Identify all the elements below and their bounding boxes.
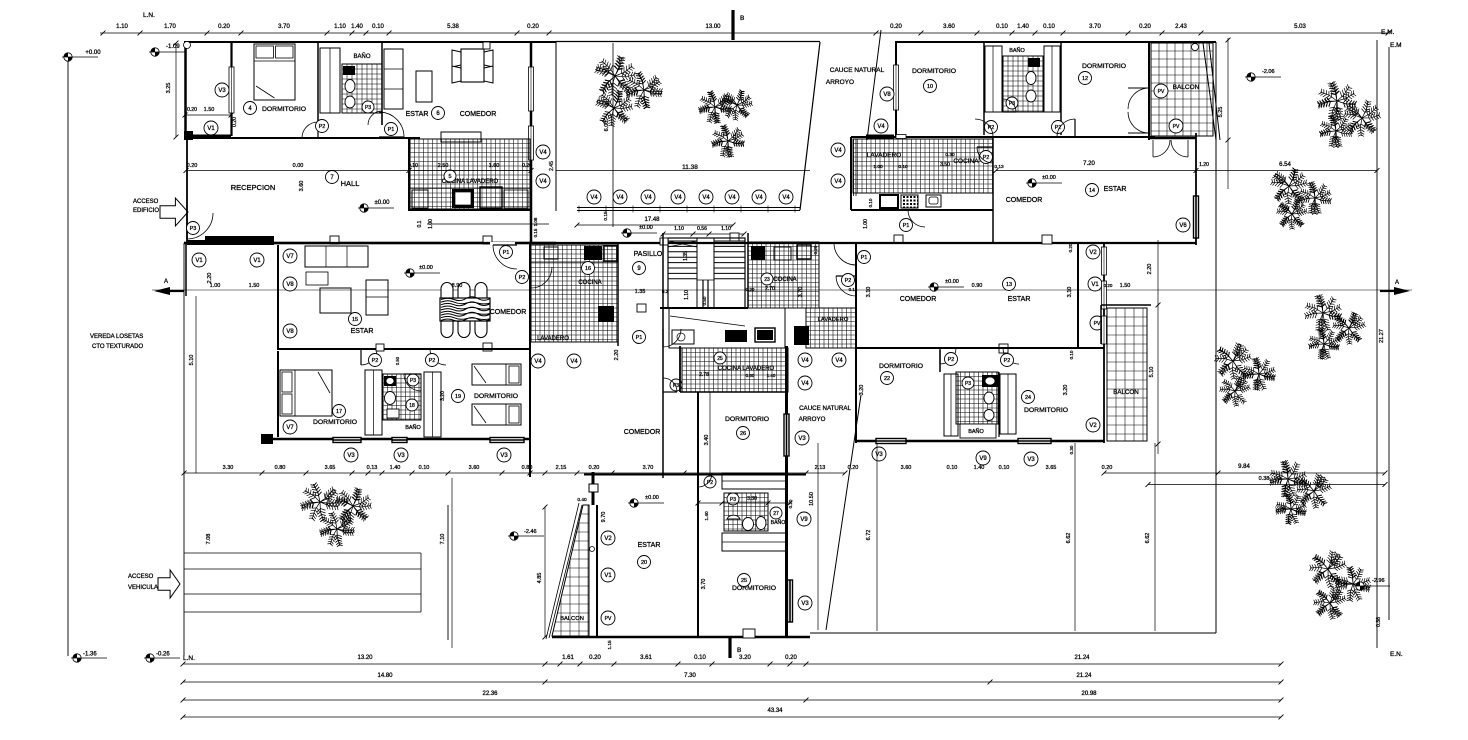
svg-text:0.10: 0.10 (408, 163, 418, 169)
svg-text:2.20: 2.20 (207, 273, 213, 284)
svg-text:0.20: 0.20 (187, 107, 197, 113)
svg-text:1.35: 1.35 (635, 289, 646, 295)
svg-text:P2: P2 (519, 275, 526, 281)
svg-text:CAUCE NATURAL: CAUCE NATURAL (799, 405, 851, 412)
svg-text:0.20: 0.20 (813, 245, 818, 254)
svg-text:0.80: 0.80 (746, 373, 755, 378)
svg-text:1.70: 1.70 (164, 24, 176, 30)
svg-text:0.10: 0.10 (694, 655, 706, 661)
svg-text:0.20: 0.20 (746, 287, 755, 292)
svg-text:3.70: 3.70 (278, 24, 290, 30)
svg-text:3.10: 3.10 (866, 287, 872, 298)
svg-text:±0.00: ±0.00 (639, 225, 653, 231)
svg-text:19: 19 (455, 394, 461, 400)
svg-text:13.20: 13.20 (357, 655, 373, 661)
svg-text:P3: P3 (965, 381, 971, 387)
svg-text:LAVADERO: LAVADERO (818, 317, 849, 323)
svg-text:V7: V7 (286, 425, 294, 431)
svg-text:1.40: 1.40 (390, 465, 401, 471)
svg-text:0.20: 0.20 (527, 24, 539, 30)
svg-text:3.60: 3.60 (469, 465, 480, 471)
svg-text:V1: V1 (1091, 282, 1099, 288)
svg-text:2.43: 2.43 (1175, 24, 1187, 30)
svg-text:3.61: 3.61 (640, 655, 652, 661)
svg-text:10.50: 10.50 (809, 492, 815, 506)
svg-text:V4: V4 (590, 195, 598, 201)
svg-text:V8: V8 (286, 282, 294, 288)
svg-text:EDIFICIO: EDIFICIO (133, 208, 159, 214)
svg-text:A: A (164, 279, 168, 285)
svg-text:DORMITORIO: DORMITORIO (879, 363, 923, 370)
svg-text:V3: V3 (875, 452, 883, 458)
svg-text:1.50: 1.50 (204, 107, 215, 113)
svg-text:1.10: 1.10 (674, 226, 684, 232)
svg-text:3.20: 3.20 (1063, 385, 1069, 396)
svg-text:BAÑO: BAÑO (353, 53, 370, 60)
svg-text:3.65: 3.65 (325, 465, 336, 471)
svg-text:E.M: E.M (1390, 42, 1402, 49)
svg-text:COMEDOR: COMEDOR (460, 111, 497, 118)
svg-text:PV: PV (605, 616, 612, 622)
svg-text:6.62: 6.62 (1145, 533, 1151, 544)
svg-text:ACCESO: ACCESO (128, 574, 154, 580)
svg-text:20.98: 20.98 (1081, 691, 1097, 697)
svg-text:9.70: 9.70 (601, 512, 607, 523)
svg-text:BAÑO: BAÑO (968, 428, 984, 435)
svg-text:V4: V4 (834, 148, 842, 154)
svg-text:2.13: 2.13 (815, 465, 826, 471)
svg-text:26: 26 (740, 431, 746, 437)
svg-text:3.40: 3.40 (704, 435, 710, 446)
svg-text:P2: P2 (845, 278, 852, 284)
svg-text:1.08: 1.08 (533, 217, 538, 226)
svg-text:V4: V4 (539, 179, 547, 185)
svg-text:25: 25 (741, 578, 747, 584)
svg-text:V4: V4 (728, 195, 736, 201)
svg-text:V4: V4 (834, 179, 842, 185)
svg-text:L.N.: L.N. (143, 12, 155, 19)
svg-text:1.10: 1.10 (116, 24, 128, 30)
svg-text:PV: PV (1173, 124, 1180, 130)
svg-text:V4: V4 (539, 150, 547, 156)
svg-text:1.40: 1.40 (974, 465, 985, 471)
svg-text:1.35: 1.35 (683, 251, 689, 261)
svg-text:0.10: 0.10 (1069, 350, 1074, 359)
svg-text:1.15: 1.15 (607, 640, 613, 650)
svg-text:3.25: 3.25 (166, 83, 172, 94)
svg-text:DORMITORIO: DORMITORIO (1024, 407, 1068, 414)
svg-text:2.20: 2.20 (614, 350, 620, 361)
svg-text:±0.00: ±0.00 (945, 279, 959, 285)
svg-text:0.15: 0.15 (603, 211, 609, 221)
svg-text:0.20: 0.20 (1139, 24, 1151, 30)
svg-text:22: 22 (884, 376, 890, 382)
svg-text:1.40: 1.40 (1017, 24, 1029, 30)
svg-text:1.00: 1.00 (863, 219, 869, 229)
svg-text:V4: V4 (674, 195, 682, 201)
svg-text:0.10: 0.10 (1043, 24, 1055, 30)
svg-text:V2: V2 (604, 536, 612, 542)
svg-text:9.84: 9.84 (1238, 464, 1250, 470)
svg-text:±0.00: ±0.00 (375, 200, 391, 206)
svg-text:6.62: 6.62 (1066, 533, 1072, 544)
svg-text:0.20: 0.20 (1068, 243, 1073, 252)
svg-text:3.50: 3.50 (940, 162, 950, 168)
svg-text:V2: V2 (1089, 423, 1097, 429)
svg-text:E.N.: E.N. (1390, 651, 1403, 658)
svg-text:COMEDOR: COMEDOR (490, 309, 527, 316)
svg-text:14: 14 (1089, 188, 1095, 194)
svg-text:0.10: 0.10 (996, 24, 1008, 30)
svg-text:22.36: 22.36 (482, 691, 498, 697)
svg-text:1.00: 1.00 (210, 283, 221, 289)
svg-text:COCINA: COCINA (953, 158, 979, 165)
svg-text:3.60: 3.60 (943, 24, 955, 30)
svg-text:BAÑO: BAÑO (1009, 47, 1025, 54)
svg-text:COMEDOR: COMEDOR (624, 429, 661, 436)
svg-text:5.03: 5.03 (1294, 24, 1306, 30)
svg-text:P1: P1 (503, 250, 510, 256)
svg-text:COMEDOR: COMEDOR (900, 296, 937, 303)
svg-text:V1: V1 (207, 126, 215, 132)
svg-text:ARROYO: ARROYO (826, 79, 854, 86)
svg-text:23: 23 (764, 277, 770, 283)
svg-text:2.15: 2.15 (556, 465, 567, 471)
svg-text:V9: V9 (979, 456, 987, 462)
svg-text:1.50: 1.50 (1120, 283, 1131, 289)
svg-text:1.10: 1.10 (721, 226, 731, 232)
svg-text:0.10: 0.10 (372, 24, 384, 30)
svg-text:1.00: 1.00 (428, 219, 434, 229)
svg-text:V4: V4 (702, 195, 710, 201)
svg-text:BALCON: BALCON (1173, 84, 1200, 91)
svg-text:11.38: 11.38 (682, 164, 698, 171)
svg-text:0.1: 0.1 (417, 220, 423, 227)
svg-text:ESTAR: ESTAR (638, 542, 661, 549)
svg-text:0.00: 0.00 (293, 163, 304, 169)
svg-text:ARROYO: ARROYO (799, 416, 826, 423)
svg-text:±0.00: ±0.00 (419, 265, 433, 271)
svg-text:0.90: 0.90 (972, 283, 983, 289)
svg-text:P2: P2 (1004, 358, 1011, 364)
svg-text:0.13: 0.13 (367, 465, 378, 471)
svg-text:0.20: 0.20 (1102, 465, 1113, 471)
svg-text:A: A (1395, 280, 1399, 286)
svg-text:3.65: 3.65 (1046, 465, 1057, 471)
svg-text:25: 25 (717, 356, 723, 362)
svg-text:V8: V8 (286, 329, 294, 335)
svg-text:1.50: 1.50 (249, 283, 260, 289)
svg-text:V3: V3 (347, 453, 355, 459)
svg-text:VEREDA LOSETAS: VEREDA LOSETAS (90, 334, 143, 340)
svg-text:COMEDOR: COMEDOR (1006, 197, 1043, 204)
svg-text:-2.46: -2.46 (524, 529, 537, 535)
svg-text:-1.36: -1.36 (83, 652, 97, 658)
svg-text:1.60: 1.60 (489, 163, 500, 169)
svg-text:P2: P2 (429, 358, 436, 364)
svg-text:0.20: 0.20 (785, 655, 797, 661)
svg-text:2.20: 2.20 (1147, 264, 1153, 275)
svg-text:3.10: 3.10 (1067, 287, 1073, 298)
svg-text:0.80: 0.80 (275, 465, 286, 471)
svg-text:V3: V3 (218, 88, 226, 94)
svg-text:8.90: 8.90 (452, 283, 463, 289)
svg-text:7.20: 7.20 (1083, 161, 1095, 167)
svg-text:3.70: 3.70 (798, 287, 804, 298)
svg-text:0.10: 0.10 (947, 465, 958, 471)
svg-text:0.20: 0.20 (522, 163, 532, 169)
svg-text:0.10: 0.10 (898, 164, 908, 170)
svg-text:7.08: 7.08 (206, 534, 212, 545)
svg-text:3.60: 3.60 (299, 181, 305, 192)
svg-text:V4: V4 (782, 195, 790, 201)
svg-text:21.27: 21.27 (1379, 329, 1385, 343)
svg-text:0.20: 0.20 (232, 117, 238, 127)
svg-text:0.20: 0.20 (218, 24, 230, 30)
svg-text:7.30: 7.30 (684, 673, 696, 679)
svg-text:5.25: 5.25 (1218, 107, 1224, 118)
svg-text:0.13: 0.13 (994, 164, 1004, 170)
svg-text:BALCON: BALCON (1113, 389, 1138, 396)
svg-text:0.56: 0.56 (697, 226, 707, 232)
svg-text:V4: V4 (570, 359, 578, 365)
svg-text:BAÑO: BAÑO (405, 424, 421, 431)
svg-text:1.61: 1.61 (562, 655, 574, 661)
svg-text:6.54: 6.54 (1279, 162, 1291, 168)
svg-text:CTO TEXTURADO: CTO TEXTURADO (92, 344, 143, 350)
svg-text:ESTAR: ESTAR (406, 111, 429, 118)
svg-text:6.00: 6.00 (604, 121, 610, 132)
svg-text:V3: V3 (798, 436, 806, 442)
svg-text:DORMITORIO: DORMITORIO (1082, 63, 1126, 70)
svg-text:0.10: 0.10 (999, 465, 1010, 471)
svg-text:V3: V3 (1027, 457, 1035, 463)
svg-text:6.72: 6.72 (866, 530, 872, 541)
svg-text:+0.00: +0.00 (85, 50, 101, 56)
svg-text:V3: V3 (801, 601, 809, 607)
svg-text:P2: P2 (319, 124, 326, 130)
svg-text:0.80: 0.80 (522, 465, 533, 471)
svg-text:COCINA: COCINA (773, 277, 796, 283)
svg-text:15: 15 (352, 317, 358, 323)
svg-text:3.20: 3.20 (859, 385, 865, 396)
svg-text:1.10: 1.10 (334, 24, 346, 30)
svg-text:DORMITORIO: DORMITORIO (732, 585, 776, 592)
svg-text:4.85: 4.85 (537, 573, 543, 584)
svg-text:E.M.: E.M. (1381, 29, 1395, 36)
svg-text:0.10: 0.10 (868, 198, 873, 207)
svg-text:COCINA: COCINA (578, 280, 601, 286)
svg-text:P1: P1 (861, 255, 868, 261)
svg-text:P2: P2 (948, 357, 955, 363)
svg-text:12: 12 (1082, 76, 1088, 82)
svg-text:0.15: 0.15 (533, 228, 538, 237)
svg-text:ESTAR: ESTAR (351, 328, 374, 335)
svg-text:0.20: 0.20 (187, 163, 198, 169)
svg-text:DORMITORIO: DORMITORIO (912, 68, 956, 75)
svg-text:21.24: 21.24 (1076, 673, 1092, 679)
svg-text:V4: V4 (877, 124, 885, 130)
svg-text:3.30: 3.30 (747, 496, 757, 502)
svg-text:PV: PV (1094, 321, 1101, 327)
svg-text:V9: V9 (800, 517, 808, 523)
svg-text:P3: P3 (410, 378, 416, 384)
svg-text:V4: V4 (644, 195, 652, 201)
svg-text:V7: V7 (286, 254, 294, 260)
svg-text:P1: P1 (636, 335, 643, 341)
svg-text:5: 5 (448, 174, 451, 180)
svg-text:V2: V2 (1089, 250, 1097, 256)
svg-text:V1: V1 (604, 573, 612, 579)
svg-text:14.80: 14.80 (377, 673, 393, 679)
svg-text:V4: V4 (835, 358, 843, 364)
svg-text:5.10: 5.10 (189, 355, 195, 366)
svg-text:20: 20 (641, 560, 647, 566)
svg-text:0.50: 0.50 (395, 356, 400, 365)
svg-text:P3: P3 (365, 105, 371, 111)
svg-text:1.40: 1.40 (351, 24, 363, 30)
svg-text:±0.00: ±0.00 (645, 495, 659, 501)
svg-text:V4: V4 (755, 195, 763, 201)
svg-text:-1.09: -1.09 (166, 44, 180, 50)
svg-text:ACCESO: ACCESO (133, 199, 159, 205)
svg-text:-0.26: -0.26 (156, 652, 170, 658)
svg-text:0.20: 0.20 (788, 499, 793, 508)
svg-text:-2.96: -2.96 (1372, 578, 1385, 584)
svg-text:16: 16 (585, 266, 591, 272)
svg-text:0.20: 0.20 (589, 465, 600, 471)
svg-text:V1: V1 (195, 258, 203, 264)
svg-text:43.34: 43.34 (767, 708, 783, 714)
svg-text:24: 24 (1025, 395, 1031, 401)
svg-text:0.20: 0.20 (848, 465, 859, 471)
svg-text:V1: V1 (253, 258, 261, 264)
svg-text:V4: V4 (801, 381, 809, 387)
svg-text:HALL: HALL (341, 179, 360, 188)
svg-text:3.70: 3.70 (701, 579, 707, 590)
svg-text:LAVADERO: LAVADERO (537, 336, 569, 342)
svg-text:P2: P2 (372, 358, 379, 364)
svg-text:BAÑO: BAÑO (771, 519, 786, 526)
svg-text:17.48: 17.48 (644, 217, 660, 223)
svg-text:1.10: 1.10 (684, 290, 690, 300)
svg-text:COCINA LAVADERO: COCINA LAVADERO (718, 366, 775, 372)
svg-text:DORMITORIO: DORMITORIO (474, 393, 518, 400)
svg-text:3.60: 3.60 (901, 465, 912, 471)
svg-text:0.20: 0.20 (890, 24, 902, 30)
svg-text:2.50: 2.50 (438, 163, 449, 169)
svg-text:0.15: 0.15 (849, 287, 858, 292)
svg-text:LAVADERO: LAVADERO (867, 152, 901, 159)
svg-text:3.20: 3.20 (739, 655, 751, 661)
svg-text:V4: V4 (801, 358, 809, 364)
svg-text:0.38: 0.38 (1259, 476, 1270, 482)
svg-text:5.10: 5.10 (1149, 367, 1155, 378)
svg-text:ESTAR: ESTAR (1104, 186, 1127, 193)
svg-text:0.20: 0.20 (1104, 283, 1113, 288)
svg-text:0.10: 0.10 (419, 465, 430, 471)
svg-text:1.40: 1.40 (704, 511, 710, 521)
svg-text:13: 13 (1006, 282, 1012, 288)
svg-text:V6: V6 (1179, 223, 1187, 229)
svg-text:0.40: 0.40 (577, 497, 587, 503)
svg-text:B: B (737, 647, 741, 654)
svg-text:0.30: 0.30 (945, 152, 955, 158)
svg-text:13.00: 13.00 (705, 24, 721, 30)
svg-text:P1: P1 (903, 223, 910, 229)
svg-text:DORMITORIO: DORMITORIO (262, 106, 306, 113)
svg-text:1.40: 1.40 (767, 373, 776, 378)
svg-text:V3: V3 (500, 453, 508, 459)
svg-text:2.70: 2.70 (765, 286, 775, 292)
svg-text:P3: P3 (190, 226, 197, 232)
svg-text:-2.06: -2.06 (1262, 69, 1275, 75)
svg-text:PV: PV (1158, 89, 1165, 95)
svg-text:V4: V4 (616, 195, 624, 201)
svg-text:B: B (740, 15, 744, 22)
svg-text:RECEPCION: RECEPCION (231, 183, 276, 192)
svg-text:21.24: 21.24 (1074, 655, 1090, 661)
svg-text:V3: V3 (397, 453, 405, 459)
svg-text:17: 17 (336, 409, 342, 415)
svg-text:±0.00: ±0.00 (1042, 175, 1056, 181)
svg-text:PASILLO: PASILLO (634, 251, 663, 258)
svg-text:V8: V8 (883, 92, 891, 98)
svg-text:BALCON: BALCON (560, 616, 584, 622)
svg-text:1.00: 1.00 (873, 164, 883, 170)
svg-text:18: 18 (409, 403, 415, 409)
svg-text:3.30: 3.30 (223, 465, 234, 471)
svg-text:0.30: 0.30 (1069, 445, 1074, 454)
svg-text:DORMITORIO: DORMITORIO (313, 419, 357, 426)
svg-text:P3: P3 (730, 497, 736, 503)
svg-text:DORMITORIO: DORMITORIO (725, 416, 769, 423)
svg-text:3.70: 3.70 (1089, 24, 1101, 30)
svg-text:ESTAR: ESTAR (1008, 296, 1031, 303)
svg-text:L.N.: L.N. (183, 655, 195, 662)
svg-text:0.38: 0.38 (1376, 617, 1382, 627)
svg-text:1.20: 1.20 (1199, 162, 1209, 168)
svg-text:10: 10 (927, 84, 933, 90)
svg-text:5.38: 5.38 (447, 24, 459, 30)
svg-text:7.10: 7.10 (440, 534, 446, 545)
svg-text:0.20: 0.20 (589, 655, 601, 661)
svg-text:P1: P1 (388, 127, 395, 133)
svg-text:3.70: 3.70 (643, 465, 654, 471)
svg-text:0.50: 0.50 (702, 296, 707, 305)
svg-text:27: 27 (773, 511, 779, 517)
svg-text:V4: V4 (534, 359, 542, 365)
svg-text:2.78: 2.78 (699, 372, 709, 378)
svg-text:2.45: 2.45 (549, 161, 555, 171)
